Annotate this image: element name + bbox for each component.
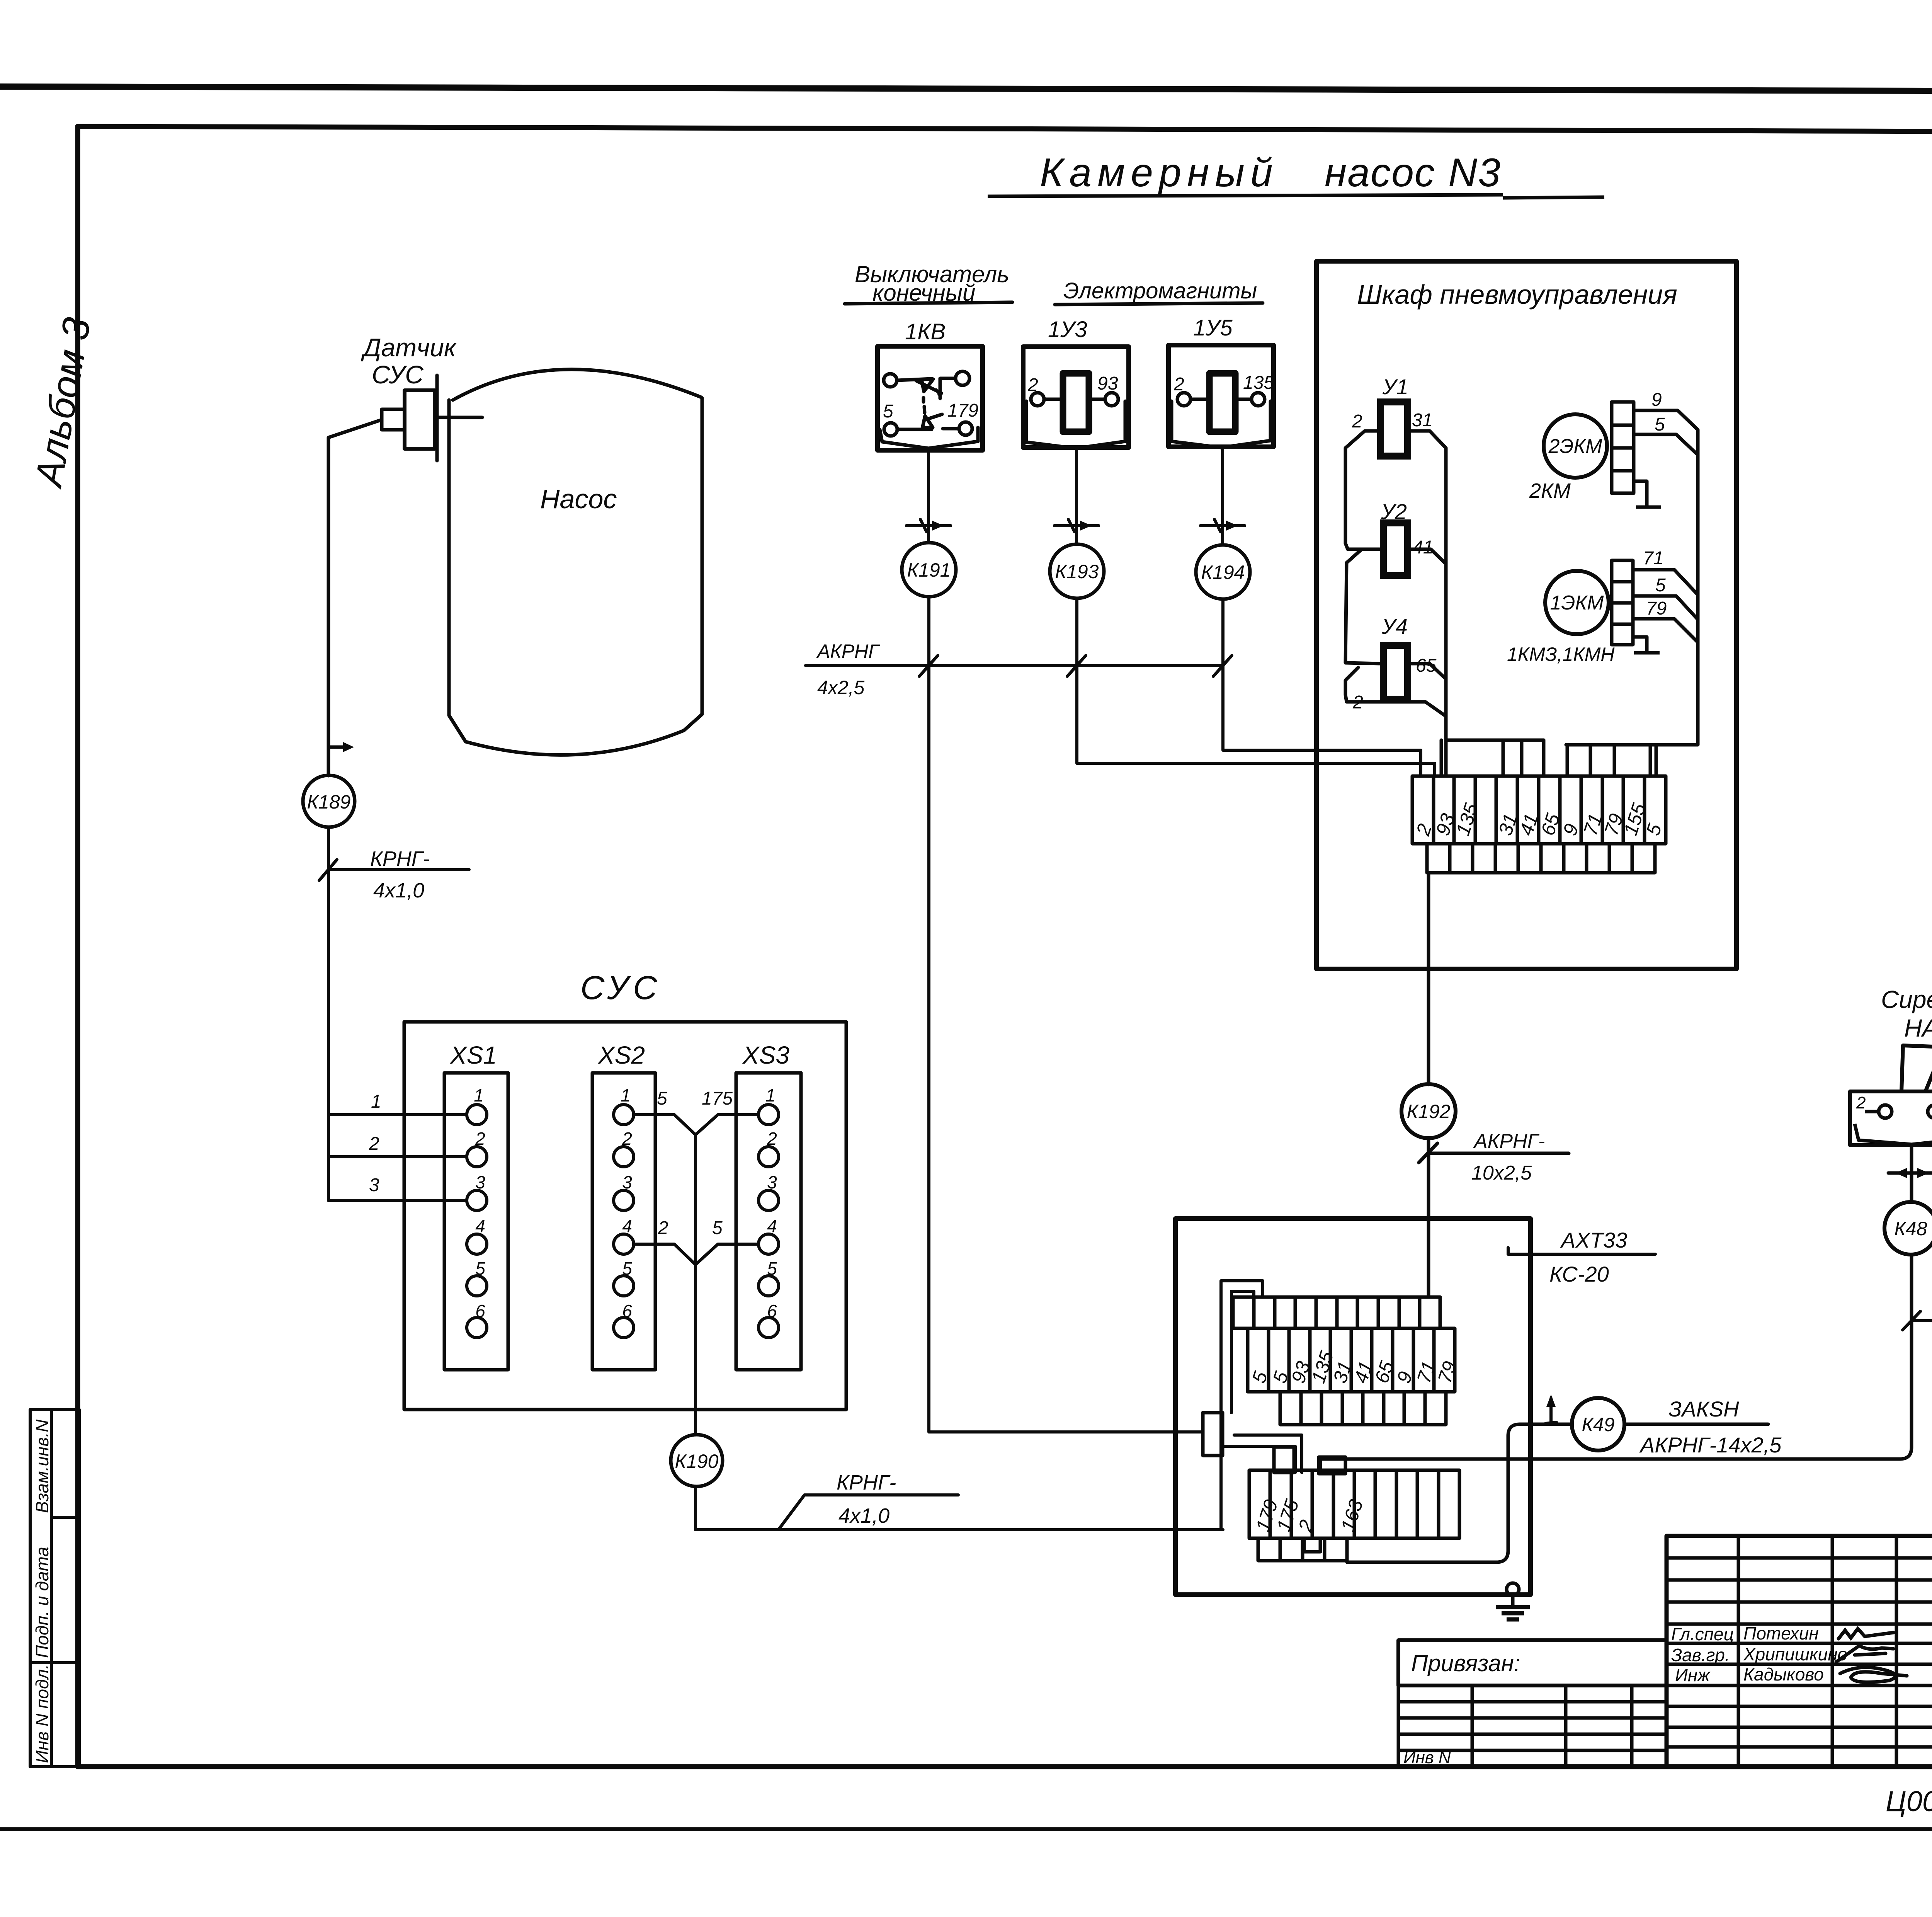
svg-text:2: 2 [369,1134,379,1154]
wire count arrow [1546,1394,1556,1423]
svg-text:79: 79 [1646,598,1667,619]
wire K194 to shkaf strip [1223,599,1421,776]
svg-text:КРНГ-: КРНГ- [370,847,430,870]
cable label 3AKSN shelf [1624,1423,1768,1426]
1EKM ground lead [1633,637,1647,653]
svg-text:4: 4 [475,1216,485,1236]
svg-text:175: 175 [702,1088,733,1109]
title block left grid rows [1667,1556,1932,1560]
cable label AKRNG-4x2,5 shelf [1912,1319,1932,1322]
wire K189 down to XS1 branches [319,827,469,1200]
svg-text:135: 135 [1243,373,1274,393]
svg-text:АКРНГ-: АКРНГ- [1473,1130,1545,1153]
signature scribbles [1836,1629,1907,1682]
XS2 pins [614,1105,634,1338]
svg-text:5: 5 [1655,575,1666,596]
cabinet strip lower row [1427,844,1655,873]
svg-text:N3: N3 [1448,150,1501,195]
2EKM wire 5 [1634,434,1698,455]
svg-text:Электромагниты: Электромагниты [1063,278,1257,303]
svg-text:СУС: СУС [580,969,662,1006]
cable marker circle K191 [902,543,956,597]
AKRNG 4x2,5 bus [806,655,1232,676]
svg-text:2: 2 [622,1129,632,1149]
svg-text:К189: К189 [307,791,351,813]
sensor SUS body [405,390,435,449]
limit switch 1KV box [878,346,983,450]
SUS box [404,1022,846,1410]
cable label KRNG-4x1,0 tick [319,860,337,880]
svg-text:9: 9 [1651,390,1662,410]
svg-text:4: 4 [767,1216,777,1236]
svg-text:НА: НА [1904,1014,1932,1042]
XS1 pin numbers [474,1085,485,1321]
cable label AKRNG-10x2,5 shelf [1429,1152,1569,1155]
2EKM terminal block [1612,402,1698,507]
svg-text:К190: К190 [675,1451,719,1472]
svg-text:179: 179 [947,400,978,421]
wire K192 down to KS-20 [1419,1138,1569,1297]
1U3 terminals [1031,393,1044,406]
svg-text:Инв N: Инв N [1403,1748,1451,1767]
siren horn [1850,1045,1932,1145]
svg-text:4х2,5: 4х2,5 [817,677,865,698]
svg-text:XS2: XS2 [597,1041,645,1069]
svg-text:КРНГ-: КРНГ- [837,1471,896,1494]
svg-text:Камерный: Камерный [1040,150,1279,195]
siren plug outline [1855,1124,1932,1144]
wire siren to K48 [1888,1145,1932,1202]
chain to strip stubs [1440,740,1443,776]
sensor flange line [435,375,439,461]
wire K193 to shkaf strip [1077,598,1435,776]
svg-text:6: 6 [475,1301,485,1321]
siren terminals [1879,1105,1892,1118]
cabinet terminal strip [1412,776,1666,873]
KS-20 lower strip numbers [1252,1497,1367,1535]
1EKM terminal block [1612,560,1698,653]
svg-text:2ЭКМ: 2ЭКМ [1548,435,1603,458]
tank Nasos outline [449,398,702,755]
svg-text:2: 2 [1856,1093,1866,1112]
left lower table [1398,1685,1667,1767]
1EKM wire 5 [1633,596,1698,620]
collector stubs to strip [1566,745,1569,776]
wire 1U5 down [1201,447,1245,545]
wire strip to K192 [1427,873,1430,1084]
1KV contact bottom [897,428,932,431]
ground symbol [1511,1595,1515,1607]
svg-text:1У5: 1У5 [1193,315,1233,340]
left margin stamp table [30,1410,79,1767]
1U5 terminals [1177,393,1190,406]
cable arrow mark K193 [1054,524,1099,527]
wires into XS1 pins 1-3 [328,1115,467,1200]
svg-text:насос: насос [1325,150,1435,195]
svg-text:2: 2 [1173,374,1184,395]
svg-text:4х1,0: 4х1,0 [373,879,424,902]
wire K49 elbow from lower strip [1347,1424,1572,1562]
1KV linkage dashes [922,398,925,402]
svg-text:Насос: Насос [540,484,617,514]
cable label AKRNG-10x2,5 tick [1419,1143,1437,1163]
cabinet strip terminal numbers [1412,801,1666,839]
svg-text:Гл.спец: Гл.спец [1671,1624,1734,1644]
wire 1KV down [906,450,951,543]
svg-text:Подп. и дата: Подп. и дата [32,1547,52,1658]
KS-20 upper strip main row [1248,1328,1455,1392]
svg-text:3: 3 [622,1172,632,1192]
svg-text:АКРНГ-14х2,5: АКРНГ-14х2,5 [1639,1433,1782,1457]
svg-text:XS1: XS1 [449,1041,497,1069]
valve coil U1 [1381,402,1408,456]
svg-text:К49: К49 [1582,1414,1614,1435]
svg-text:5: 5 [767,1258,777,1279]
cable marker circle K192 [1401,1084,1456,1138]
svg-text:Привязан:: Привязан: [1411,1650,1520,1676]
XS3 pins [759,1105,779,1338]
cable marker circle K189 [303,775,355,827]
svg-text:1КВ: 1КВ [905,319,946,344]
cable arrow mark K191 [906,524,951,527]
svg-text:Ц00058-03: Ц00058-03 [1886,1785,1932,1817]
svg-text:Сирена: Сирена [1881,986,1932,1013]
svg-text:3: 3 [475,1172,485,1192]
svg-text:АХТ33: АХТ33 [1560,1228,1627,1252]
KS-20 upper strip numbers [1248,1348,1461,1386]
wire sensor to K189 [328,420,382,776]
title underline [988,195,1604,198]
svg-text:Потехин: Потехин [1743,1623,1819,1643]
svg-text:1: 1 [474,1085,484,1105]
cable label AKRNG-4x2,5 tick [1903,1311,1932,1330]
svg-text:У4: У4 [1381,614,1408,638]
EKM collector wire [1566,430,1698,776]
svg-text:Зав.гр.: Зав.гр. [1671,1645,1730,1665]
svg-text:Взам.инв.N: Взам.инв.N [32,1419,52,1513]
bus tick at K194 [1213,655,1232,676]
svg-text:1КМЗ,1КМН: 1КМЗ,1КМН [1507,644,1615,665]
KS-20 lower strip bottom cells [1258,1538,1347,1561]
svg-text:Инв N подл.: Инв N подл. [32,1664,52,1763]
svg-text:5: 5 [712,1218,723,1238]
svg-text:71: 71 [1643,548,1663,569]
svg-text:Кадыково: Кадыково [1743,1664,1824,1684]
jumper XS2-4 / XS3-4 to bus [634,1244,696,1265]
svg-text:КС-20: КС-20 [1549,1262,1609,1286]
2EKM ground lead [1634,481,1647,507]
svg-text:К193: К193 [1055,561,1099,582]
svg-text:1: 1 [765,1085,776,1105]
1U3 coil [1063,373,1089,432]
svg-text:Хрипишкино: Хрипишкино [1743,1644,1847,1664]
svg-text:4х1,0: 4х1,0 [838,1504,889,1527]
svg-text:4: 4 [622,1216,632,1236]
svg-text:3: 3 [369,1175,379,1195]
KS-20 left entry connector [1203,1413,1223,1456]
valve coil U2 [1383,523,1408,575]
svg-text:2: 2 [767,1129,777,1149]
wire 1U3 down [1054,448,1099,544]
svg-text:5: 5 [1655,414,1665,435]
2EKM wire 9 [1634,410,1698,430]
cable marker circle K194 [1196,545,1250,599]
cable marker circle K193 [1050,544,1104,598]
cable marker circle K48 [1884,1202,1932,1255]
svg-text:2КМ: 2КМ [1529,479,1571,502]
TITLE BLOCK [1667,1536,1932,1767]
wire K48 into box [1320,1255,1912,1470]
KS-20 upper strip top row [1233,1297,1455,1425]
svg-text:Шкаф пневмоуправления: Шкаф пневмоуправления [1357,279,1677,310]
svg-text:2: 2 [1352,411,1362,432]
1KV contact top [897,379,932,380]
title block outer [1667,1536,1932,1767]
svg-text:6: 6 [622,1301,632,1321]
svg-text:2: 2 [1027,375,1038,395]
solenoid 1U3 box [1023,347,1129,448]
siren box [1850,1091,1932,1145]
cable marker circle K49 [1572,1398,1624,1451]
svg-text:5: 5 [657,1088,667,1109]
pressure switch 2EKM [1544,414,1607,478]
wire K191 to KS-20 box [929,597,1435,1432]
svg-text:10х2,5: 10х2,5 [1471,1162,1532,1184]
svg-text:3: 3 [767,1172,777,1192]
1EKM wire 79 [1633,619,1698,642]
cable label KRNG-4x1,0 (2) leader [779,1495,958,1529]
svg-text:5: 5 [622,1258,632,1279]
cable label KRNG-4x1,0 shelf [328,868,469,871]
1U5 plug outline [1172,401,1270,448]
KS-20 internal channel vertical [1221,1281,1302,1530]
wire direction arrow [328,746,343,749]
svg-text:1: 1 [371,1091,381,1112]
ground node circle [1496,1583,1530,1619]
connector XS1 [444,1073,508,1370]
XS2 pin numbers [621,1085,632,1321]
svg-text:АКРНГ: АКРНГ [816,640,880,662]
connector XS3 [736,1073,801,1370]
1U3 plug outline [1026,401,1125,448]
svg-text:93: 93 [1097,373,1118,394]
KS-20 lower strip main row [1249,1470,1459,1538]
svg-text:1ЭКМ: 1ЭКМ [1550,592,1604,614]
svg-text:31: 31 [1412,410,1432,431]
jumper XS2-1 / XS3-1 to bus [634,1115,759,1435]
1EKM wire 71 [1633,570,1698,595]
svg-text:У1: У1 [1382,375,1408,399]
valve connector chain outline [1345,431,1544,776]
1KV terminals [884,374,897,387]
svg-text:1: 1 [621,1085,631,1105]
bus tick at K193 [1067,655,1086,676]
svg-text:СУС: СУС [372,360,424,389]
KS-20 upper strip bottom row [1280,1392,1446,1425]
outer top border line [0,87,1932,92]
cable arrow mark siren [1888,1171,1932,1175]
svg-text:К191: К191 [907,559,951,581]
svg-text:Инж: Инж [1675,1665,1711,1685]
KS-20 box [1175,1219,1531,1595]
svg-text:XS3: XS3 [742,1041,789,1069]
svg-text:2: 2 [475,1129,485,1149]
svg-text:5: 5 [883,401,893,422]
cable arrow mark K194 [1201,524,1245,527]
solenoid 1U5 box [1168,345,1274,447]
1KV plug outline [880,427,978,448]
svg-text:2: 2 [658,1218,668,1238]
svg-text:К48: К48 [1894,1218,1927,1239]
svg-text:Датчик: Датчик [361,333,457,362]
KS-20 lower strip top cells [1249,1447,1459,1561]
cable marker circle K190 [671,1435,723,1486]
title block left grid verticals [1737,1536,1740,1767]
svg-text:К194: К194 [1201,562,1245,583]
cabinet box [1316,261,1736,969]
KS-20 internal channel middle [1234,1435,1302,1473]
valve coil U4 [1383,645,1408,699]
svg-text:ЗАКSН: ЗАКSН [1668,1397,1739,1421]
1U5 coil [1209,373,1235,432]
connector XS2 [592,1073,655,1370]
svg-text:1У3: 1У3 [1048,317,1087,342]
svg-text:5: 5 [475,1258,485,1279]
svg-text:К192: К192 [1407,1101,1451,1122]
privyazan box [1398,1640,1667,1685]
pressure switch 1EKM [1545,571,1609,634]
wire bus to K190 [694,1135,697,1435]
XS3 pin numbers [765,1085,777,1321]
svg-text:6: 6 [767,1301,777,1321]
cable label AHT33 KS-20 shelf [1508,1248,1655,1254]
wire K190 to KS-20 box [696,1486,1223,1530]
bus tick at K191 [919,655,938,676]
outer bottom border line [0,1827,1932,1831]
XS1 pins [467,1105,487,1338]
